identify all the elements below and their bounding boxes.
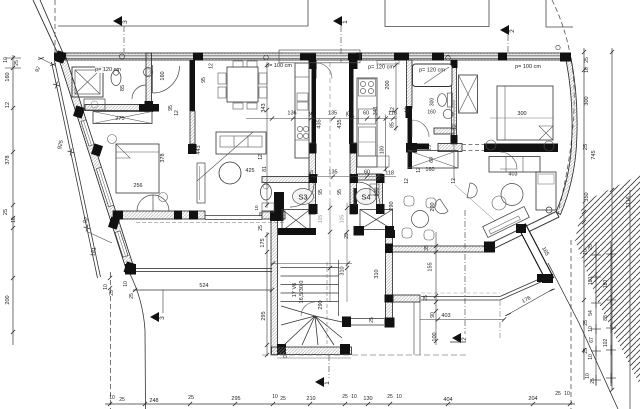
svg-text:175: 175 [260, 238, 266, 247]
svg-text:60: 60 [364, 170, 370, 176]
svg-text:300: 300 [584, 96, 590, 105]
svg-text:250: 250 [375, 187, 381, 196]
svg-text:12: 12 [405, 107, 411, 113]
svg-text:10: 10 [396, 394, 402, 400]
svg-text:745: 745 [591, 150, 597, 159]
svg-text:60: 60 [429, 157, 435, 163]
svg-text:2: 2 [461, 337, 468, 341]
svg-text:35: 35 [424, 245, 430, 251]
svg-text:25: 25 [427, 145, 433, 151]
svg-text:95: 95 [318, 189, 324, 195]
svg-text:1: 1 [324, 381, 331, 385]
svg-text:200: 200 [5, 295, 11, 304]
svg-text:100: 100 [432, 332, 438, 341]
svg-text:95: 95 [168, 105, 174, 111]
svg-text:180: 180 [603, 280, 609, 289]
svg-text:25: 25 [119, 397, 125, 403]
svg-text:404: 404 [443, 397, 452, 403]
svg-text:300: 300 [430, 98, 436, 107]
svg-text:155: 155 [428, 262, 434, 271]
svg-text:95: 95 [337, 189, 343, 195]
svg-text:524: 524 [199, 283, 208, 289]
svg-text:118: 118 [385, 171, 394, 177]
svg-text:12: 12 [5, 102, 11, 108]
svg-text:54: 54 [588, 310, 594, 316]
svg-text:25: 25 [258, 225, 264, 231]
svg-text:435: 435 [317, 119, 323, 128]
svg-text:25: 25 [583, 348, 589, 354]
svg-text:25: 25 [342, 394, 348, 400]
svg-text:25: 25 [588, 244, 594, 250]
svg-text:25: 25 [423, 295, 429, 301]
svg-text:12: 12 [452, 124, 458, 130]
svg-text:105: 105 [318, 215, 324, 224]
svg-text:210: 210 [306, 396, 315, 402]
svg-text:300: 300 [517, 111, 526, 117]
svg-text:160: 160 [5, 72, 11, 81]
svg-text:88: 88 [603, 315, 609, 321]
svg-text:60: 60 [363, 111, 369, 117]
svg-text:310: 310 [340, 266, 346, 275]
svg-text:160: 160 [160, 71, 166, 80]
svg-text:295: 295 [261, 311, 267, 320]
svg-text:25: 25 [583, 320, 589, 326]
svg-text:403: 403 [508, 172, 517, 178]
svg-text:95: 95 [201, 77, 207, 83]
svg-text:25: 25 [369, 317, 375, 323]
svg-text:10: 10 [254, 205, 259, 211]
svg-text:160: 160 [427, 110, 436, 116]
svg-text:10: 10 [351, 394, 357, 400]
svg-text:25: 25 [387, 394, 393, 400]
svg-text:10: 10 [585, 373, 591, 379]
svg-text:S4: S4 [361, 193, 370, 202]
svg-text:118: 118 [388, 111, 397, 117]
svg-text:290: 290 [430, 202, 436, 211]
svg-text:10: 10 [564, 391, 570, 397]
svg-text:25: 25 [346, 111, 352, 117]
svg-text:85: 85 [390, 122, 396, 128]
svg-text:12: 12 [209, 63, 215, 69]
svg-text:25: 25 [310, 111, 316, 117]
svg-text:p= 120 cm: p= 120 cm [368, 65, 394, 71]
svg-text:25: 25 [188, 395, 194, 401]
svg-text:25: 25 [3, 209, 9, 215]
svg-text:443: 443 [196, 145, 202, 154]
svg-text:295: 295 [231, 396, 240, 402]
svg-text:248: 248 [149, 398, 158, 404]
svg-text:105: 105 [340, 215, 346, 224]
svg-text:10: 10 [109, 395, 115, 401]
svg-text:12: 12 [258, 154, 264, 160]
svg-text:378: 378 [5, 155, 11, 164]
svg-text:25: 25 [258, 211, 263, 217]
svg-text:160: 160 [425, 167, 434, 173]
svg-text:25: 25 [584, 57, 590, 63]
svg-text:p= 100 cm: p= 100 cm [515, 64, 541, 70]
svg-text:10: 10 [103, 284, 109, 290]
svg-text:25: 25 [590, 378, 596, 384]
svg-text:12: 12 [451, 178, 457, 184]
svg-text:25: 25 [129, 293, 135, 299]
svg-text:378: 378 [160, 153, 166, 162]
svg-text:425: 425 [245, 168, 254, 174]
svg-text:85: 85 [120, 85, 126, 91]
svg-text:p= 120 cm: p= 120 cm [419, 68, 445, 74]
svg-text:16,5/30,0: 16,5/30,0 [299, 281, 305, 304]
svg-text:435: 435 [337, 119, 343, 128]
svg-text:25: 25 [555, 391, 561, 397]
svg-text:136: 136 [287, 111, 296, 117]
svg-text:p= 100 cm: p= 100 cm [266, 63, 292, 69]
svg-text:10: 10 [123, 281, 129, 287]
svg-text:310: 310 [374, 269, 380, 278]
svg-text:10: 10 [3, 57, 9, 63]
svg-text:275: 275 [115, 116, 124, 122]
svg-text:67: 67 [589, 337, 595, 343]
svg-text:135: 135 [328, 111, 337, 117]
svg-text:290: 290 [318, 300, 324, 309]
svg-text:90: 90 [430, 312, 436, 318]
svg-text:348: 348 [373, 107, 379, 116]
svg-text:25: 25 [109, 290, 115, 296]
svg-text:12: 12 [404, 178, 410, 184]
svg-text:3: 3 [159, 316, 166, 320]
svg-text:102: 102 [603, 339, 609, 348]
svg-text:290: 290 [389, 201, 395, 210]
svg-text:1: 1 [342, 20, 349, 24]
svg-text:S3: S3 [298, 193, 307, 202]
svg-text:204: 204 [528, 396, 537, 402]
svg-text:2: 2 [509, 29, 516, 33]
svg-text:100: 100 [380, 146, 386, 155]
svg-text:10: 10 [588, 326, 594, 332]
svg-text:3: 3 [122, 20, 129, 24]
svg-text:403: 403 [441, 313, 450, 319]
svg-text:17 V6: 17 V6 [292, 283, 298, 297]
svg-text:343: 343 [261, 103, 267, 112]
svg-text:256: 256 [133, 183, 142, 189]
svg-text:180: 180 [588, 277, 594, 286]
svg-text:10: 10 [584, 67, 590, 73]
svg-text:10: 10 [583, 249, 589, 255]
svg-text:25: 25 [309, 170, 315, 176]
svg-text:12: 12 [174, 110, 180, 116]
svg-text:10: 10 [588, 354, 594, 360]
svg-text:10: 10 [11, 217, 17, 223]
svg-text:10: 10 [272, 394, 278, 400]
svg-text:25: 25 [280, 396, 286, 402]
svg-text:200: 200 [385, 80, 391, 89]
svg-text:130: 130 [363, 396, 372, 402]
svg-text:25: 25 [14, 60, 20, 66]
svg-text:25: 25 [583, 144, 589, 150]
